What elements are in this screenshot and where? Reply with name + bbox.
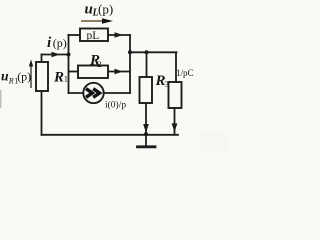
svg-text:(p): (p) — [98, 2, 113, 17]
current source arrow chevrons — [86, 89, 100, 98]
svg-text:i(0)/p: i(0)/p — [105, 100, 126, 111]
wire: left column to current source — [69, 92, 84, 94]
wire: R1 bottom to bottom bus — [41, 91, 43, 135]
inductor impedance pL box — [80, 29, 108, 42]
wire: top bus node B to capacitor corner — [130, 51, 177, 53]
arrowhead: R2 output — [115, 69, 124, 75]
ground — [145, 135, 147, 146]
resistor R2 — [78, 66, 108, 79]
voltage arrow u_L — [81, 20, 104, 22]
svg-text:R: R — [53, 70, 64, 86]
svg-text:(p): (p) — [53, 36, 67, 50]
voltage arrow u_R1 — [30, 62, 32, 88]
wire: right collection column — [129, 35, 131, 93]
wire: R3 top stem — [146, 52, 148, 77]
arrowhead: pL output — [115, 32, 124, 38]
wire: pL output to right column — [108, 34, 130, 36]
svg-text:1: 1 — [64, 74, 68, 84]
paper background — [0, 0, 228, 152]
svg-text:(p): (p) — [17, 70, 31, 84]
wire: capacitor bottom to bus — [174, 108, 176, 134]
current source i(0)/p circle — [83, 83, 103, 103]
wire: left distribution column — [68, 35, 70, 93]
arrowhead: i(p) current direction — [52, 52, 61, 58]
wire: current source to right column — [104, 92, 130, 94]
junction node R3 top — [145, 50, 149, 54]
wire: R2 output to right column — [108, 71, 130, 73]
wire: left column to pL input — [69, 34, 81, 36]
arrowhead: R3 branch current down — [143, 124, 149, 133]
wire: left column to R2 input — [69, 71, 79, 73]
svg-text:pL: pL — [87, 30, 100, 42]
wire: i(p) branch, top of R1 to node A — [42, 54, 69, 56]
svg-text:u: u — [1, 69, 9, 84]
svg-text:R: R — [8, 76, 14, 85]
wire: capacitor column top stem — [175, 52, 177, 82]
wire: R3 bottom to bus — [145, 103, 147, 134]
svg-text:3: 3 — [165, 79, 169, 89]
junction node B — [128, 50, 132, 54]
resistor R1 — [36, 62, 48, 91]
svg-text:1/pC: 1/pC — [176, 68, 194, 78]
svg-text:2: 2 — [97, 59, 101, 69]
junction node A — [67, 53, 71, 57]
wire: bottom ground bus — [42, 134, 179, 136]
capacitor impedance 1/pC box — [169, 82, 182, 108]
resistor R3 — [140, 77, 153, 103]
wire: node A top, R1 top stem — [41, 55, 43, 63]
arrowhead: capacitor branch current down — [172, 123, 178, 132]
junction node ground — [144, 132, 148, 136]
